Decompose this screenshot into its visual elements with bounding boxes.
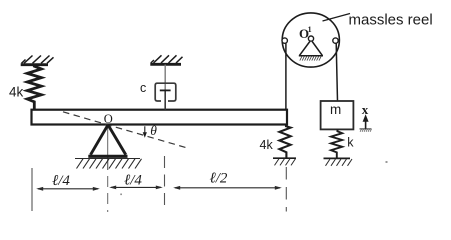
svg-text:ℓ/4: ℓ/4 — [124, 173, 142, 189]
svg-text:m: m — [330, 102, 341, 117]
svg-text:O: O — [104, 112, 113, 126]
svg-text:ℓ/4: ℓ/4 — [52, 173, 70, 189]
svg-text:k: k — [347, 136, 354, 150]
svg-text:1: 1 — [308, 25, 312, 34]
svg-text:4k: 4k — [260, 138, 274, 152]
svg-text:θ: θ — [150, 123, 157, 138]
svg-text:massles reel: massles reel — [349, 12, 433, 29]
svg-text:c: c — [140, 81, 146, 95]
svg-text:x: x — [362, 102, 369, 117]
svg-text:ℓ/2: ℓ/2 — [210, 171, 228, 187]
svg-text:4k: 4k — [9, 85, 24, 100]
